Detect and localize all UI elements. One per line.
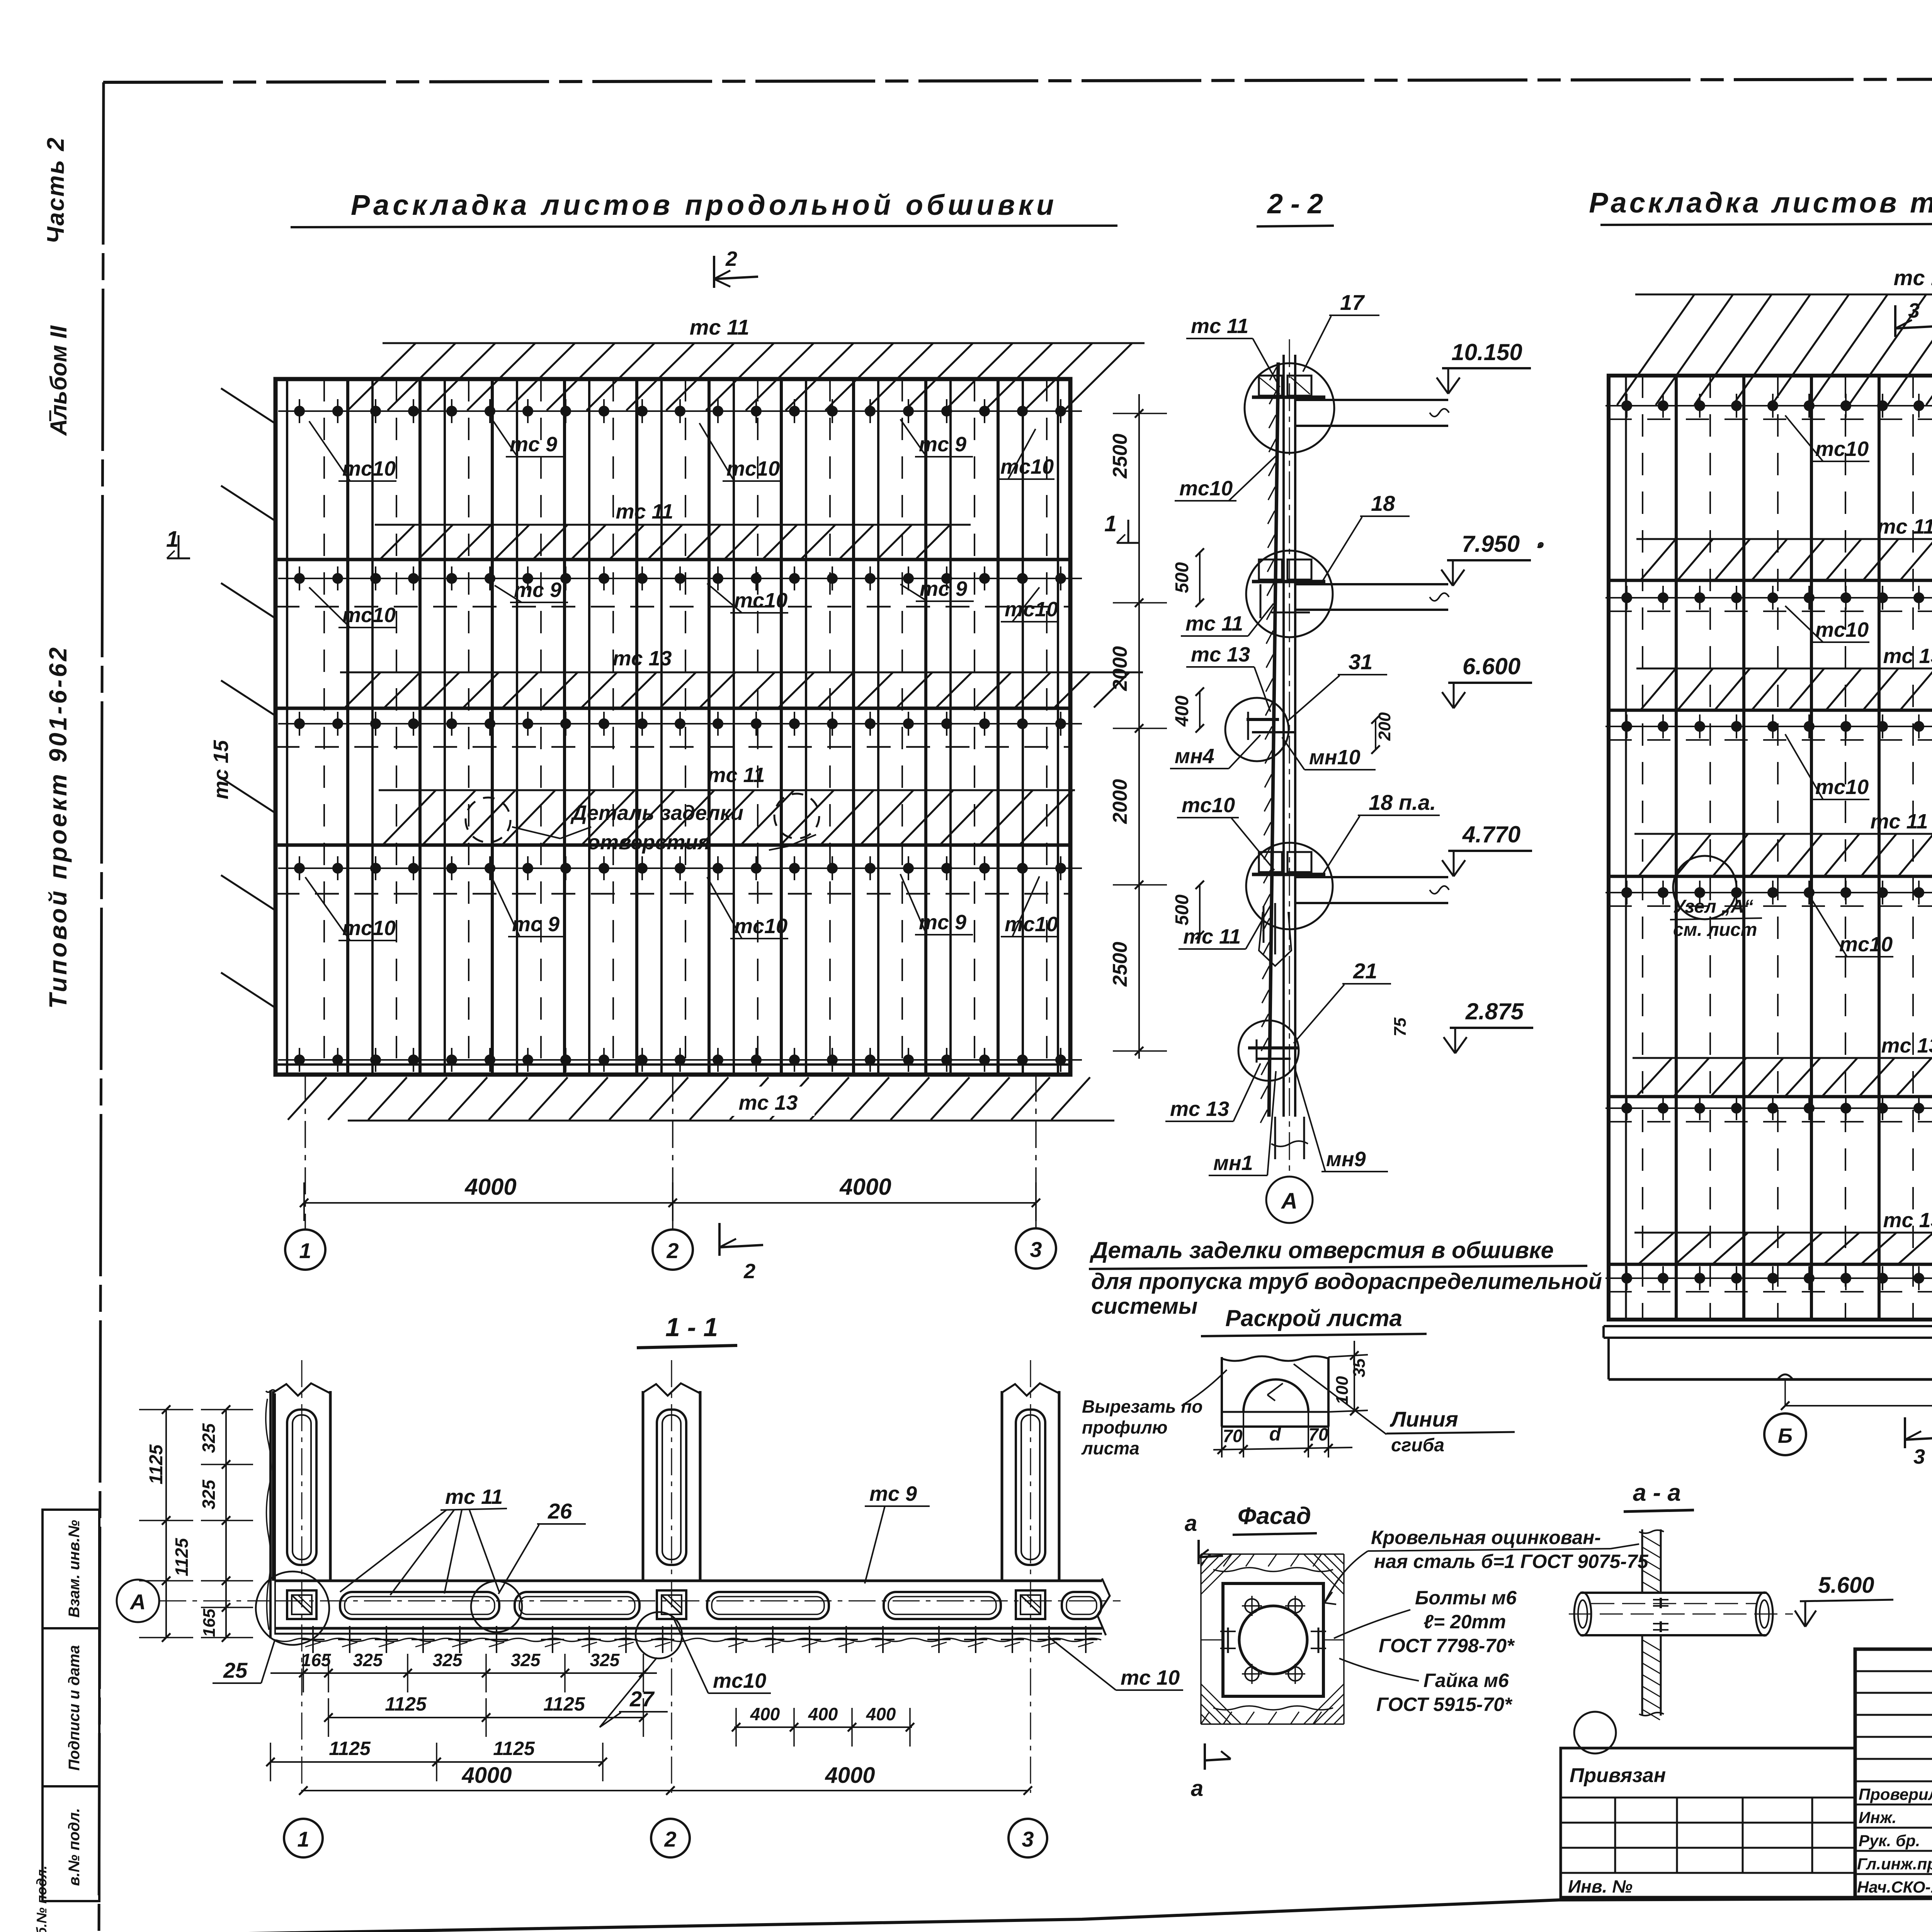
label mc10 (upper) (1175, 456, 1276, 501)
fastener row 6 of end panel (1605, 1266, 1932, 1290)
fastener row 4 of longitudinal panel (278, 856, 1082, 880)
svg-text:mc 11: mc 11 (1877, 515, 1932, 538)
svg-text:mc10: mc10 (342, 917, 396, 940)
svg-text:mc10: mc10 (734, 589, 787, 612)
plan sheathing band (274, 1578, 1110, 1641)
attachment table label Инв № (1568, 1876, 1633, 1896)
longitudinal panel outline (276, 379, 1070, 1075)
label mc10 (1001, 587, 1059, 622)
svg-text:Б: Б (1778, 1424, 1793, 1447)
svg-text:Взам. инв.№: Взам. инв.№ (66, 1520, 83, 1617)
hatch band mc 11 at y2158 (end panel) (1634, 810, 1932, 876)
svg-text:4000: 4000 (825, 1763, 875, 1788)
dimension 70-d-70 (sheet detail) (1213, 1412, 1352, 1458)
margin text: Часть 2 (43, 136, 69, 244)
attachment table grid (1561, 1798, 1855, 1873)
label mc 9 (900, 419, 973, 457)
plan left dimension chain (139, 1405, 253, 1642)
hatch band mc 13 at y1730 (end panel) (1636, 645, 1932, 709)
fasad bolt top-right (1285, 1596, 1305, 1616)
note Деталь заделки отверстия with dashed circles (466, 794, 819, 854)
section arrow a top (1185, 1511, 1223, 1564)
node A marker on end panel (1670, 856, 1762, 940)
sheet frame bottom border (68, 1896, 1932, 1932)
svg-text:2500: 2500 (1109, 942, 1131, 987)
svg-text:Проверил: Проверил (1859, 1785, 1932, 1803)
hatch band mc 13 at y2738 (end panel) (1633, 1034, 1932, 1096)
dimension 35 (sheet detail) (1328, 1341, 1369, 1415)
label mc 9 (495, 578, 568, 602)
label mc 9 (491, 875, 566, 937)
svg-text:325: 325 (590, 1650, 620, 1670)
title: Раскладка листов продольной обшивки (291, 189, 1117, 227)
label mc 11 top (end panel) (1894, 265, 1932, 290)
label mc 9 (900, 874, 973, 935)
svg-text:А: А (129, 1590, 146, 1614)
svg-text:Деталь заделки отверстия в: Деталь заделки отверстия в обшивке (1089, 1237, 1554, 1263)
svg-text:mc 9: mc 9 (512, 913, 560, 936)
svg-text:mc10: mc10 (734, 915, 787, 938)
svg-text:для пропуска труб водораспр: для пропуска труб водораспределительной (1091, 1269, 1602, 1294)
dimension 4000 (end panel) (1781, 1378, 1932, 1410)
hatch band mc13 row3 of longitudinal panel (340, 672, 1143, 707)
margin text bottom corner (34, 1866, 49, 1932)
title block signature column grid (1855, 1649, 1932, 1897)
label mc10 (997, 429, 1054, 479)
svg-text:Типовой проект 901-6-62: Типовой проект 901-6-62 (44, 645, 72, 1009)
label mc10 (end panel) (1785, 734, 1869, 799)
section mark 1 left (166, 527, 190, 558)
svg-text:mc 9: mc 9 (510, 433, 557, 456)
svg-text:Фасад: Фасад (1238, 1503, 1311, 1529)
section 2-2 detail circle 21 (1238, 1020, 1299, 1081)
plan sheet slot 1 (340, 1592, 499, 1619)
svg-text:отверстия: отверстия (587, 831, 710, 854)
note line 2: для пропуска труб (1091, 1269, 1602, 1294)
section 2-2 beam at 10.150 (1252, 376, 1449, 426)
svg-text:325: 325 (511, 1650, 541, 1670)
svg-text:Нач.СКО-1: Нач.СКО-1 (1857, 1878, 1932, 1896)
svg-text:мн9: мн9 (1326, 1148, 1366, 1171)
svg-text:25: 25 (223, 1658, 248, 1682)
svg-text:mc 9: mc 9 (869, 1482, 917, 1505)
svg-text:4000: 4000 (461, 1763, 512, 1788)
svg-text:d: d (1269, 1423, 1282, 1445)
svg-text:2000: 2000 (1109, 779, 1131, 824)
label mc10 (end panel) (1785, 606, 1869, 642)
svg-text:mc 9: mc 9 (919, 433, 966, 456)
svg-text:3: 3 (1908, 299, 1920, 322)
label а-а (1624, 1480, 1694, 1512)
label mc 9 (900, 577, 974, 601)
fasad side bolts (1201, 1628, 1344, 1653)
plan sheet slot 5 (1062, 1592, 1101, 1619)
fastener row 4 of end panel (1605, 881, 1932, 905)
svg-text:см. лист: см. лист (1673, 920, 1757, 940)
section 2-2 beam at 4.770 (1252, 852, 1449, 966)
svg-text:mc 11: mc 11 (1894, 265, 1932, 290)
svg-text:а: а (1185, 1511, 1197, 1536)
svg-text:mc10: mc10 (1815, 618, 1869, 641)
svg-text:Кровельная оцинкован-: Кровельная оцинкован- (1371, 1527, 1601, 1548)
label mc10 (707, 583, 788, 613)
svg-text:mc 13: mc 13 (612, 647, 672, 670)
column axis circle 1 (285, 1230, 325, 1270)
label мн10 (1282, 737, 1376, 770)
svg-text:70: 70 (1308, 1424, 1328, 1444)
elevation 7.950 (1441, 531, 1531, 586)
fastener row 2 of longitudinal panel (278, 566, 1082, 590)
sub dimension 400 (2-2) (1172, 687, 1204, 733)
plan dimension chain 1125 row 2 (266, 1738, 607, 1781)
svg-text:400: 400 (808, 1704, 838, 1724)
svg-text:2500: 2500 (1109, 434, 1131, 479)
section 2-2 detail circle 18 п.а. (1246, 843, 1333, 929)
note: Гайка м6 ГОСТ 5915-70 (1339, 1658, 1513, 1715)
plan dimension 4000+4000 (299, 1763, 1032, 1795)
svg-text:1125: 1125 (146, 1444, 167, 1485)
svg-text:Раскладка листов торцовой о: Раскладка листов торцовой обшивки (1589, 187, 1932, 219)
title 1-1 (637, 1313, 737, 1348)
label 18 (1321, 491, 1410, 583)
svg-text:Привязан: Привязан (1570, 1764, 1666, 1787)
svg-text:500: 500 (1172, 895, 1192, 925)
plan dimension chain 1125 row 1 (324, 1693, 648, 1737)
column axis lines below longitudinal panel (305, 1075, 1036, 1230)
svg-text:Вырезать по: Вырезать по (1082, 1396, 1202, 1417)
elevation 4.770 (1442, 821, 1532, 876)
svg-text:4.770: 4.770 (1462, 821, 1520, 847)
label mc10 (707, 877, 788, 939)
a-a node circle (1574, 1712, 1616, 1753)
svg-text:1125: 1125 (493, 1738, 535, 1759)
label 31 (1287, 650, 1387, 722)
plan column 2 (643, 1360, 700, 1793)
section 2-2 post axis line (1289, 339, 1290, 1175)
attachment table label Привязан (1561, 1764, 1855, 1798)
svg-text:системы: системы (1091, 1294, 1197, 1319)
svg-text:mc 11: mc 11 (445, 1485, 503, 1509)
fasad plate (1223, 1583, 1323, 1696)
label mc10 (309, 587, 396, 628)
label ФАСАД (1233, 1503, 1317, 1535)
svg-text:Узел „А“: Узел „А“ (1673, 896, 1753, 917)
svg-text:Раскладка листов прод: Раскладка листов продольной обшивки (351, 189, 1057, 221)
svg-text:mc 13: mc 13 (738, 1091, 798, 1114)
svg-text:325: 325 (199, 1423, 219, 1453)
plan pad at column 1 (287, 1590, 316, 1619)
end panel sheet joint lines (1626, 376, 1932, 1320)
svg-text:10.150: 10.150 (1451, 339, 1522, 365)
svg-text:2: 2 (743, 1260, 755, 1283)
section 2-2 left dimension chain (1113, 394, 1167, 1059)
plan dimension chain 400s (732, 1704, 914, 1747)
svg-text:mc10: mc10 (1000, 455, 1054, 478)
label mc10 (plan mid) (674, 1620, 771, 1693)
section 2-2 post (1284, 355, 1295, 1117)
label mc10 (699, 423, 781, 481)
section 2-2 detail circle 17 (1245, 363, 1334, 453)
svg-text:6.600: 6.600 (1463, 653, 1520, 679)
axis circle Б (1764, 1413, 1806, 1455)
label mc 11 top (690, 315, 750, 339)
svg-text:mc 11: mc 11 (690, 315, 750, 339)
label mc11 (10.150) (1186, 315, 1280, 387)
svg-text:1125: 1125 (329, 1738, 371, 1759)
end panel girt lines (1609, 580, 1932, 1264)
plan axis circle 2 (651, 1819, 690, 1857)
longitudinal panel girt lines (276, 560, 1070, 845)
note: Линия сгиба (1294, 1364, 1515, 1456)
end panel outline (1609, 376, 1932, 1320)
svg-text:7.950: 7.950 (1462, 531, 1520, 557)
svg-text:mc 11: mc 11 (1185, 612, 1243, 635)
note: Болты м6 ГОСТ 7798-70 (1334, 1587, 1517, 1656)
svg-text:Раскрой листа: Раскрой листа (1225, 1305, 1402, 1331)
svg-text:и. б.№ подл.: и. б.№ подл. (34, 1866, 49, 1932)
svg-text:Болты м6: Болты м6 (1415, 1587, 1517, 1609)
section 2-2 detail circle 18 (1246, 551, 1333, 637)
section 2-2 node at 2.875 (1248, 1039, 1298, 1063)
label mc10 (1001, 876, 1059, 937)
plan detail circle 27 (636, 1612, 682, 1658)
left leader fan to edge studs (221, 388, 276, 1008)
margin text: Типовой проект 901-6-62 (44, 645, 72, 1009)
svg-text:mc10: mc10 (1182, 794, 1235, 817)
label mc13 (6.600) (1186, 643, 1270, 712)
a-a bolts at pipe (1653, 1598, 1668, 1632)
svg-text:mc 13: mc 13 (1883, 1209, 1932, 1232)
end panel axis lines below (1785, 1320, 1932, 1414)
subtitle: Раскрой листа (1201, 1305, 1427, 1336)
svg-text:Инв. №: Инв. № (1568, 1876, 1633, 1896)
svg-text:4000: 4000 (839, 1174, 891, 1200)
svg-text:๑: ๑ (1536, 537, 1544, 551)
svg-text:3: 3 (1913, 1445, 1925, 1468)
svg-text:31: 31 (1349, 650, 1372, 674)
svg-text:mc 13: mc 13 (1883, 645, 1932, 668)
svg-text:400: 400 (750, 1704, 780, 1724)
svg-text:5.600: 5.600 (1818, 1573, 1874, 1598)
section mark 2 bottom (719, 1223, 763, 1283)
sub dimension 75 (2-2) (1391, 1017, 1410, 1036)
svg-text:1: 1 (297, 1827, 309, 1851)
label mc 9 (491, 417, 564, 457)
section arrow a bottom (1191, 1743, 1231, 1801)
svg-text:21: 21 (1353, 959, 1377, 983)
svg-text:3: 3 (1030, 1237, 1042, 1262)
plan pad at column 3 (1016, 1590, 1045, 1619)
svg-text:Гл.инж.пр: Гл.инж.пр (1857, 1855, 1932, 1873)
svg-text:200: 200 (1375, 712, 1394, 741)
svg-text:mc 13: mc 13 (1881, 1034, 1932, 1057)
elevation 6.600 (1442, 653, 1532, 708)
dimension 100 (sheet detail) (1333, 1376, 1352, 1405)
svg-text:70: 70 (1223, 1426, 1243, 1446)
sheet frame top border (103, 78, 1932, 82)
fasad bolt bottom-left (1242, 1664, 1262, 1684)
label mc 9 (plan) (865, 1482, 930, 1583)
svg-text:4000: 4000 (464, 1174, 516, 1200)
label 25 (plan) (213, 1639, 275, 1683)
svg-text:27: 27 (629, 1687, 655, 1711)
svg-text:mc10: mc10 (726, 457, 780, 480)
label mc 15 left (rotated) (209, 740, 233, 799)
fastener row 5 of end panel (1605, 1096, 1932, 1120)
svg-text:mc10: mc10 (1005, 598, 1058, 621)
svg-text:400: 400 (1172, 696, 1192, 727)
svg-text:325: 325 (199, 1479, 219, 1509)
plan pad at column 2 (657, 1590, 686, 1619)
svg-text:mc 9: mc 9 (919, 911, 966, 934)
hatch band mc11 row2 of longitudinal panel (375, 525, 971, 559)
label mc10 (end panel) (1785, 415, 1869, 461)
plan axis circle 1 (284, 1819, 323, 1857)
fastener row 1 of end panel (1605, 394, 1932, 418)
svg-text:1: 1 (166, 527, 179, 552)
section 2-2 node at 6.600 (1247, 712, 1294, 740)
svg-text:2.875: 2.875 (1465, 998, 1524, 1024)
a-a channel post lower (1639, 1636, 1664, 1720)
label mc10 (309, 421, 396, 481)
svg-text:а - а: а - а (1633, 1480, 1681, 1506)
svg-text:165: 165 (200, 1609, 219, 1637)
elevation 5.600 (1795, 1573, 1893, 1627)
svg-text:2 - 2: 2 - 2 (1267, 189, 1323, 219)
svg-text:mc10: mc10 (1005, 913, 1058, 936)
svg-text:325: 325 (353, 1650, 383, 1670)
dimension 2500 upper (2-2) (1109, 434, 1131, 479)
svg-text:325: 325 (433, 1650, 463, 1670)
title: 2-2 (1257, 189, 1334, 226)
plan fastener crosses (301, 1626, 1097, 1653)
sub dimension 500 lower (2-2) (1172, 881, 1204, 939)
svg-text:листа: листа (1081, 1438, 1139, 1458)
dimension 2000 (2-2) (1109, 646, 1131, 691)
svg-text:Гайка м6: Гайка м6 (1423, 1670, 1509, 1691)
fastener row 5 of longitudinal panel (278, 1048, 1082, 1072)
svg-text:mc10: mc10 (1839, 933, 1893, 956)
fastener row 2 of end panel (1605, 586, 1932, 610)
svg-text:mc 11: mc 11 (1183, 925, 1241, 948)
svg-text:в.№ подл.: в.№ подл. (66, 1808, 83, 1886)
fasad bolt top-left (1242, 1596, 1262, 1616)
svg-text:mc 11: mc 11 (707, 764, 765, 787)
fasad pipe hole circle (1239, 1606, 1307, 1674)
elevation 2.875 (1444, 998, 1533, 1053)
hatch band mc 13 at y3190 (end panel) (1634, 1209, 1932, 1264)
hatch band mc 11 at y1395 (end panel) (1636, 515, 1932, 580)
svg-text:35: 35 (1350, 1358, 1369, 1377)
svg-text:ная сталь б=1 ГОСТ 9075-75: ная сталь б=1 ГОСТ 9075-75 (1374, 1551, 1649, 1572)
label mc10 (lower) (1177, 794, 1274, 870)
svg-text:ГОСТ 7798-70*: ГОСТ 7798-70* (1379, 1635, 1515, 1656)
hatch band mc11 above longitudinal panel (348, 343, 1145, 410)
svg-text:26: 26 (548, 1499, 572, 1523)
label 18 п.а. (1321, 790, 1440, 876)
margin stamp box: Подписи и дата (43, 1628, 99, 1786)
svg-text:165: 165 (301, 1650, 332, 1670)
end panel stud axis dashed lines (1643, 376, 1932, 1320)
svg-text:а: а (1191, 1776, 1203, 1801)
svg-text:mc 11: mc 11 (1870, 810, 1928, 833)
svg-text:mc10: mc10 (342, 604, 396, 627)
note: Кровельная оцинкованная сталь (1325, 1527, 1649, 1604)
plan bottom dimension chain 325s (270, 1650, 657, 1692)
svg-text:mc10: mc10 (1815, 437, 1869, 461)
fasad bolt bottom-right (1285, 1664, 1305, 1684)
svg-text:mc10: mc10 (1815, 776, 1869, 799)
label mc 10 (plan right) (1048, 1636, 1183, 1690)
dimension 2500 lower (2-2) (1109, 942, 1131, 987)
svg-text:ГОСТ 5915-70*: ГОСТ 5915-70* (1376, 1694, 1513, 1715)
longitudinal panel dashed girt lines (276, 607, 1070, 894)
note line 3: системы (1091, 1294, 1197, 1319)
note: Деталь заделки отверстия в обшивке (1089, 1237, 1587, 1269)
title: Раскладка листов торцовой обшивки (1589, 187, 1932, 225)
svg-text:2: 2 (664, 1827, 676, 1851)
title block outer box (1855, 1649, 1932, 1897)
label мн9 (1295, 1070, 1388, 1172)
svg-text:mc 9: mc 9 (514, 578, 561, 602)
svg-text:1 - 1: 1 - 1 (665, 1313, 718, 1342)
section mark 2 top (714, 247, 758, 288)
plan corner angle at column 1 (266, 1390, 275, 1638)
section mark 3 bottom (1905, 1417, 1932, 1468)
hatch band mc11 above end panel (1617, 294, 1932, 405)
svg-text:сгиба: сгиба (1391, 1435, 1444, 1456)
label mc10 (305, 877, 396, 940)
signature row Нач.СКО-1 Власкин (1857, 1878, 1932, 1915)
svg-text:Деталь заделки: Деталь заделки (570, 801, 743, 825)
plan axis A circle (117, 1580, 1121, 1622)
svg-text:1125: 1125 (172, 1537, 192, 1576)
section 2-2 sheathing sheet (hatched) (1260, 362, 1278, 1123)
attachment table box (1561, 1748, 1855, 1897)
sub dimension 500 upper (2-2) (1172, 548, 1204, 607)
signature row Рук.бр. Любопытова (1859, 1832, 1932, 1850)
fasad corner hatching (1201, 1554, 1344, 1724)
plan column 3 (1002, 1360, 1059, 1793)
svg-text:Часть 2: Часть 2 (43, 136, 69, 244)
label 26 (plan) (498, 1499, 586, 1594)
fastener row 1 of longitudinal panel (278, 399, 1082, 423)
section mark 1 right (1104, 511, 1140, 543)
svg-text:mc 13: mc 13 (1191, 643, 1250, 666)
longitudinal panel stud axis dashed lines (324, 379, 1047, 1075)
svg-text:mc 11: mc 11 (1191, 315, 1248, 338)
label mc11 (7.950) (1181, 604, 1274, 636)
dimension text 4000 left bay (464, 1174, 516, 1200)
column axis circle 3 (1016, 1228, 1056, 1269)
axis circle A (2-2) (1266, 1177, 1313, 1223)
dimension text 4000 right bay (839, 1174, 891, 1200)
section mark 3 top (1895, 299, 1932, 337)
dimension line 4000+4000 of longitudinal panel (300, 1182, 1040, 1221)
signature row Проверил Любопытова (1859, 1785, 1932, 1803)
section 2-2 detail circle 31 (1225, 698, 1289, 761)
svg-text:500: 500 (1172, 562, 1192, 593)
plan column 1 (273, 1360, 330, 1793)
margin text: Альбом II (46, 325, 71, 436)
elevation 10.150 (1437, 339, 1531, 394)
svg-text:Подписи и дата: Подписи и дата (66, 1645, 83, 1771)
svg-text:А: А (1281, 1189, 1298, 1214)
label mc 11 row4 (707, 764, 765, 787)
plan detail circle at column 1 (256, 1571, 329, 1645)
svg-text:17: 17 (1340, 290, 1365, 315)
svg-text:400: 400 (866, 1704, 896, 1724)
